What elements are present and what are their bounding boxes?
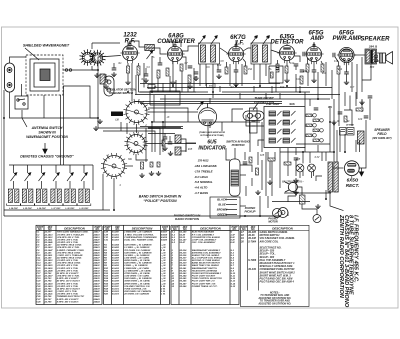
wire fuse out xyxy=(302,204,317,215)
svg-text:S-14: S-14 xyxy=(231,282,236,285)
coil L2 antenna coil xyxy=(100,74,105,84)
wire 6u5 lead xyxy=(232,109,243,122)
coil L4 RF choke xyxy=(145,45,155,51)
wire wafer3 down xyxy=(113,178,115,210)
ground xyxy=(149,171,154,176)
wire T1 down2 xyxy=(205,64,207,86)
wire pb down xyxy=(279,148,281,160)
wire wafer to 6u5 xyxy=(148,111,198,113)
resistor R30 xyxy=(162,140,165,146)
junction xyxy=(97,69,99,71)
wire amp down1 xyxy=(307,72,309,86)
wire rf vertical xyxy=(97,70,99,128)
coil L12 field xyxy=(358,131,365,144)
wire mid v7 xyxy=(187,83,189,92)
coil L17 oscillator xyxy=(49,189,63,206)
band-switch rosette wafer SW1d (antenna) xyxy=(80,49,106,66)
wire r18 xyxy=(257,152,259,165)
trimmer xyxy=(25,173,31,181)
wire out down xyxy=(356,64,358,99)
trimmer xyxy=(67,173,73,181)
svg-text:SWITCH IN RADIO: SWITCH IN RADIO xyxy=(226,140,250,144)
wire det cathode xyxy=(286,61,288,67)
tube V6 6F6G pwr amp xyxy=(337,47,356,65)
wire grid cap amp xyxy=(313,42,315,47)
svg-text:R25: R25 xyxy=(296,159,301,161)
wire d20 xyxy=(267,196,269,208)
ground at rect tube xyxy=(359,168,363,176)
coil T4 primary xyxy=(328,162,332,192)
junction xyxy=(259,215,261,217)
wire det out xyxy=(294,56,300,62)
pushbutton contact 5 xyxy=(320,129,324,133)
svg-text:DESCRIPTION: DESCRIPTION xyxy=(132,226,153,230)
wire grid lead xyxy=(98,56,121,71)
svg-text:C17: C17 xyxy=(350,87,355,89)
wire mid v3 xyxy=(162,83,164,92)
wire det down1 xyxy=(275,72,277,92)
tube V4 6J5G detector xyxy=(277,45,296,63)
wire wafer3 down2 xyxy=(102,174,104,210)
svg-text:R13: R13 xyxy=(322,73,327,75)
resistor R9 xyxy=(276,64,279,72)
wire rect out xyxy=(359,152,367,168)
wire osc down2 xyxy=(164,95,166,122)
resistor R6 xyxy=(188,75,191,83)
wire bus101 xyxy=(135,101,282,103)
band-switch wafer SW1c xyxy=(101,153,127,179)
svg-text:MOTOR: MOTOR xyxy=(268,221,277,224)
junction xyxy=(127,91,129,93)
svg-text:7A: 7A xyxy=(269,68,272,71)
wire d29 xyxy=(325,152,327,161)
svg-text:16 MFD. 450 V. ELECT.: 16 MFD. 450 V. ELECT. xyxy=(57,287,81,290)
PB trimmer 5 xyxy=(283,111,296,116)
svg-text:63-486: 63-486 xyxy=(112,249,120,252)
pilot lamp 1 xyxy=(296,164,304,172)
voice coil terminals xyxy=(375,55,378,62)
resistor R20 xyxy=(306,114,312,117)
svg-text:22-1421: 22-1421 xyxy=(44,293,54,296)
svg-text:15A: 15A xyxy=(248,68,253,71)
wire d27 xyxy=(295,182,297,196)
wire phono lead green xyxy=(226,214,237,216)
svg-text:95-242: 95-242 xyxy=(180,269,188,272)
wire T2 down2 xyxy=(259,64,261,86)
wire amp down2 xyxy=(317,72,319,99)
wire padder bracket xyxy=(181,139,186,151)
ground g2 xyxy=(293,190,298,195)
resistor R1 xyxy=(127,66,130,73)
svg-text:7A: 7A xyxy=(203,36,206,39)
wire rosette up xyxy=(91,43,93,49)
capacitor C7b xyxy=(194,72,199,74)
wire trimmer to coil 2 xyxy=(27,181,29,189)
wire amp plate xyxy=(321,61,323,64)
wire rect to field xyxy=(365,140,367,152)
svg-text:S-15: S-15 xyxy=(231,286,236,288)
svg-text:63-492: 63-492 xyxy=(112,264,120,267)
wire switch up xyxy=(21,84,23,96)
svg-text:95-245: 95-245 xyxy=(180,277,188,280)
svg-text:-8-C HIGH: -8-C HIGH xyxy=(194,175,209,179)
wire c31 lead xyxy=(169,136,171,142)
wire pb v2 xyxy=(309,99,311,106)
svg-text:95-234: 95-234 xyxy=(180,249,188,252)
wire amp cathode xyxy=(313,62,315,71)
AC plug xyxy=(285,182,298,192)
svg-text:RECT.: RECT. xyxy=(346,183,360,188)
resistor R ballast xyxy=(300,195,306,204)
wire mid v1 xyxy=(151,56,153,92)
ground xyxy=(170,80,175,85)
wire d3 xyxy=(361,99,363,112)
svg-text:-18A LOW-BASS: -18A LOW-BASS xyxy=(194,164,217,168)
svg-text:22417: 22417 xyxy=(93,231,101,234)
wire grid cap rf xyxy=(127,42,129,48)
capacitor C18 xyxy=(243,162,248,164)
svg-text:22-1415: 22-1415 xyxy=(44,264,54,267)
wire conv plate xyxy=(182,57,187,70)
ground g8 xyxy=(267,180,272,185)
wire osc down1 xyxy=(153,95,155,122)
wire vol to phono xyxy=(240,165,252,172)
svg-text:22428: 22428 xyxy=(93,259,101,262)
wire d16 xyxy=(274,152,276,160)
svg-text:8 MFD. 450 V. ELECT.: 8 MFD. 450 V. ELECT. xyxy=(57,298,80,301)
wire lamp feed xyxy=(309,152,311,163)
svg-text:6X5G: 6X5G xyxy=(347,178,359,183)
svg-text:63-482: 63-482 xyxy=(112,236,120,239)
svg-text:22-1413: 22-1413 xyxy=(44,233,54,236)
junction xyxy=(235,85,237,87)
svg-text:R10: R10 xyxy=(280,87,285,89)
junction xyxy=(286,85,288,87)
wire if screen xyxy=(243,59,246,66)
wire right v3 xyxy=(329,106,331,152)
parts list table group 1 xyxy=(36,225,102,304)
wire rosette down xyxy=(92,66,97,70)
band-switch wafer SW1a xyxy=(123,99,149,125)
junction xyxy=(302,151,304,153)
wire vol top xyxy=(226,148,230,160)
svg-text:20: 20 xyxy=(240,240,244,243)
resistor R8 xyxy=(244,66,247,74)
ground xyxy=(125,80,130,85)
wire right v1 xyxy=(338,106,340,126)
svg-text:22-1410: 22-1410 xyxy=(44,246,54,249)
svg-text:22431: 22431 xyxy=(93,267,101,270)
wire T1 down3 xyxy=(212,64,214,98)
svg-text:22422: 22422 xyxy=(93,244,101,247)
wire bus drop 2 xyxy=(27,165,29,173)
pushbutton contact 3 xyxy=(313,134,317,138)
wire d6 xyxy=(365,120,367,140)
tube 6U5 eye xyxy=(199,103,217,126)
pushbutton contact 6 xyxy=(320,139,324,143)
svg-text:22419: 22419 xyxy=(93,236,101,239)
wire c18b xyxy=(240,174,246,176)
wire c12 down xyxy=(295,66,297,70)
svg-text:S-7964: S-7964 xyxy=(248,240,257,243)
svg-text:22-145: 22-145 xyxy=(44,251,53,254)
svg-text:28 OHMS 1 W. CARBON: 28 OHMS 1 W. CARBON xyxy=(123,294,149,296)
svg-text:L.18 OSC: L.18 OSC xyxy=(66,208,75,210)
svg-text:DESCRIPTION: DESCRIPTION xyxy=(64,226,85,230)
wire left edge vertical bus xyxy=(3,90,5,216)
coil L18 oscillator xyxy=(63,189,77,206)
resistor R2 xyxy=(137,66,140,75)
wire c5 lead xyxy=(145,68,147,74)
wire 6u5 left xyxy=(186,143,196,152)
junction xyxy=(299,91,301,93)
PB trimmer 8 xyxy=(283,138,296,143)
svg-text:C10: C10 xyxy=(217,65,222,67)
wire det down2 xyxy=(295,74,297,92)
wire wafer bus 2 xyxy=(148,108,188,122)
ground xyxy=(156,171,161,176)
junction xyxy=(333,151,335,153)
svg-text:63-489: 63-489 xyxy=(112,256,120,259)
svg-text:22424: 22424 xyxy=(93,249,101,252)
wire pwr down1 xyxy=(331,70,333,99)
wire c20 down xyxy=(344,134,346,152)
wire d5 xyxy=(355,140,357,152)
resistor R5 xyxy=(180,64,183,71)
antenna switch xyxy=(15,96,28,109)
wire pointer xyxy=(253,103,258,110)
wire motor sw xyxy=(282,212,284,214)
trimmer 6U5 xyxy=(197,102,203,110)
resistor R16 xyxy=(150,162,153,167)
wire to ground xyxy=(127,73,129,80)
wire d19 xyxy=(259,196,261,216)
wire det gnd xyxy=(286,73,288,78)
svg-text:R14: R14 xyxy=(338,68,343,71)
svg-text:R12: R12 xyxy=(303,71,308,73)
svg-text:22-1447: 22-1447 xyxy=(44,249,54,252)
svg-text:FIELD: FIELD xyxy=(377,132,387,136)
capacitor C12b xyxy=(276,68,280,70)
wire d7 xyxy=(369,99,371,120)
resistor R14 xyxy=(337,66,340,74)
wire d22 xyxy=(287,212,289,216)
svg-text:P.B. UNIT: P.B. UNIT xyxy=(266,102,280,106)
pushbutton contact 4 xyxy=(320,119,324,123)
svg-text:63-481: 63-481 xyxy=(112,233,120,236)
wire bus drop 3 xyxy=(41,165,43,173)
coil T4 secondary xyxy=(334,162,338,192)
capacitor C7 xyxy=(188,66,193,68)
wire trans to rect xyxy=(333,167,344,169)
wire bus89 xyxy=(140,83,280,85)
junction xyxy=(113,209,115,211)
svg-text:22442: 22442 xyxy=(93,295,101,298)
wire d28 xyxy=(321,152,323,161)
trimmer xyxy=(251,36,257,44)
phono motor xyxy=(278,208,288,218)
wire osc h1 xyxy=(140,126,183,128)
svg-text:63419: 63419 xyxy=(161,236,168,239)
wire ps h3 xyxy=(296,143,330,145)
wire bus drop 6 xyxy=(83,165,85,173)
svg-text:1 W.: 1 W. xyxy=(161,294,166,296)
wire screen xyxy=(138,63,140,66)
capacitor C16 xyxy=(333,53,335,58)
svg-text:63-484: 63-484 xyxy=(112,244,120,247)
IF transformer T1 xyxy=(199,43,220,64)
svg-text:22-788: 22-788 xyxy=(44,301,53,303)
svg-text:.05 MFD. 400 V. TUB.: .05 MFD. 400 V. TUB. xyxy=(57,264,79,267)
wire loop center down xyxy=(43,95,45,118)
svg-text:C13: C13 xyxy=(296,79,301,81)
resistor R13 xyxy=(321,64,324,72)
capacitor C11 xyxy=(234,70,239,72)
wire antenna return xyxy=(10,92,71,118)
svg-text:BAND SWITCH SHOWN IN: BAND SWITCH SHOWN IN xyxy=(139,195,182,199)
wire pv2 xyxy=(265,152,267,196)
svg-text:“POLICE” POSITION: “POLICE” POSITION xyxy=(143,199,177,203)
svg-text:WAVEMAGNET POSITION: WAVEMAGNET POSITION xyxy=(26,135,68,139)
capacitor C15 xyxy=(312,70,317,72)
bus box B1 xyxy=(207,84,216,88)
trimmer xyxy=(147,51,153,59)
svg-text:22-1410: 22-1410 xyxy=(44,259,54,262)
wire osc down2 xyxy=(162,122,164,152)
svg-text:95-248: 95-248 xyxy=(180,285,188,288)
wire out sec xyxy=(362,64,371,80)
svg-text:63-496: 63-496 xyxy=(112,275,120,278)
wire T1 down4 xyxy=(217,64,219,70)
wire if cath gnd xyxy=(235,72,237,82)
svg-text:8 MFD. 450 V. ELECT.: 8 MFD. 450 V. ELECT. xyxy=(57,300,80,303)
svg-text:63-485: 63-485 xyxy=(112,246,120,249)
resistor R7 xyxy=(225,67,228,74)
wire coil bus end xyxy=(92,165,94,190)
arrow denotes chassis ground xyxy=(43,143,47,154)
coil T2 secondary xyxy=(263,45,268,62)
wire pb bottom xyxy=(258,140,264,146)
wire r9 lead xyxy=(277,60,279,64)
coil T1 secondary xyxy=(211,45,216,62)
capacitor C30x xyxy=(163,137,168,139)
ground rosette xyxy=(94,73,99,78)
svg-text:R24: R24 xyxy=(328,106,333,109)
coil L15 oscillator xyxy=(21,189,35,206)
wire c6 lead xyxy=(159,57,161,63)
svg-text:22-149: 22-149 xyxy=(44,262,53,265)
ground xyxy=(143,78,148,83)
wire top conv xyxy=(165,42,181,47)
svg-text:BLUE: BLUE xyxy=(218,203,226,207)
svg-text:R15: R15 xyxy=(188,149,193,151)
resistor R12 xyxy=(306,64,309,72)
capacitor C6 xyxy=(158,63,163,65)
wire bs drop b xyxy=(126,123,128,134)
wire trimmer to coil 4 xyxy=(55,181,57,189)
wire amp down3 xyxy=(325,62,327,86)
svg-text:DESCRIPTION: DESCRIPTION xyxy=(200,226,221,230)
resistor R9b xyxy=(271,72,274,78)
wire bus92c xyxy=(222,91,310,93)
capacitor C24 xyxy=(364,116,369,118)
svg-text:63-493: 63-493 xyxy=(112,267,120,270)
wire lamp to line xyxy=(299,172,301,178)
trimmer xyxy=(199,36,205,44)
wire plug to fuse xyxy=(298,187,303,195)
transformer core bar xyxy=(371,50,373,64)
wire right v2 xyxy=(333,99,335,126)
wire det join xyxy=(239,93,241,99)
push-button unit box xyxy=(264,107,305,148)
wire conv left v3 xyxy=(143,63,145,88)
PB trimmer 2 xyxy=(269,120,282,125)
svg-text:22444: 22444 xyxy=(93,300,101,303)
wire spk v xyxy=(355,92,357,106)
svg-text:SPK: SPK xyxy=(370,67,375,69)
svg-text:OSC. COIL ASSEMBLY: OSC. COIL ASSEMBLY xyxy=(192,242,216,244)
wire pwr down3 xyxy=(351,62,353,92)
wire phono lead black xyxy=(226,199,237,201)
wire ps v1 xyxy=(333,120,335,162)
volume control R20 xyxy=(230,159,241,196)
svg-text:(TUBE USED INDICATOR: (TUBE USED INDICATOR xyxy=(199,132,225,134)
svg-text:22430: 22430 xyxy=(93,264,101,267)
wire trans sw xyxy=(330,190,344,211)
wire c16 to r14 xyxy=(335,57,339,66)
resistor R21 xyxy=(268,158,275,161)
ground g4 xyxy=(331,120,336,125)
wire osc h2 xyxy=(148,128,183,130)
svg-text:22433: 22433 xyxy=(93,272,101,275)
wire phono lead brown xyxy=(226,209,237,211)
svg-text:284 Ω: 284 Ω xyxy=(368,45,378,49)
ground xyxy=(111,72,116,77)
ground bs1 xyxy=(162,146,167,151)
svg-text:PWR.AMP: PWR.AMP xyxy=(333,36,363,42)
wire d24 xyxy=(287,160,289,176)
svg-text:-5-6 NORMAL: -5-6 NORMAL xyxy=(194,180,213,184)
trimmer xyxy=(53,173,59,181)
speaker xyxy=(380,52,393,65)
capacitor C23 xyxy=(368,96,373,98)
svg-text:22-1416: 22-1416 xyxy=(44,267,54,270)
svg-text:22420: 22420 xyxy=(93,238,101,241)
svg-text:.05 MFD. 400 V. TUB.: .05 MFD. 400 V. TUB. xyxy=(57,293,79,296)
wire pwr gnd xyxy=(346,74,348,80)
wire grid cap det xyxy=(286,40,288,46)
svg-text:7A: 7A xyxy=(215,36,218,39)
wire rosette top link xyxy=(92,42,120,44)
tube V7 6X5G rect xyxy=(344,161,359,179)
svg-text:49-249: 49-249 xyxy=(247,268,256,271)
junction xyxy=(344,151,346,153)
resistor R17 xyxy=(157,162,160,167)
svg-text:PICKUP: PICKUP xyxy=(245,210,256,214)
wavemagnet plug P1 (rear view) xyxy=(104,76,114,96)
wire c30 lead xyxy=(164,133,166,137)
svg-text:22-1410: 22-1410 xyxy=(44,236,54,239)
wire d4 xyxy=(339,130,341,152)
svg-text:22418: 22418 xyxy=(93,233,101,236)
wire bus drop 5 xyxy=(69,165,71,173)
svg-text:63417: 63417 xyxy=(161,231,168,234)
svg-text:63-480: 63-480 xyxy=(112,231,120,234)
svg-text:95-246: 95-246 xyxy=(180,280,188,283)
svg-text:NO.: NO. xyxy=(232,229,236,231)
capacitor C22 xyxy=(338,112,343,114)
switch SW3 xyxy=(313,215,321,223)
